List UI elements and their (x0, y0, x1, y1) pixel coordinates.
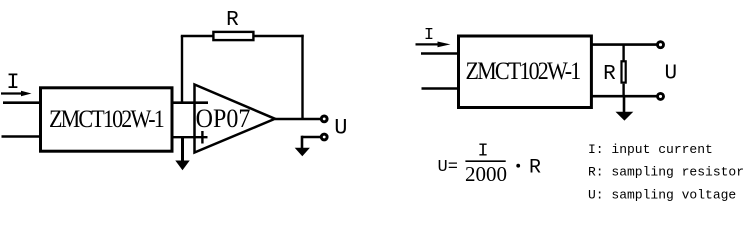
wire output bottom (right circuit) (591, 95, 657, 98)
label ZMCT102W-1 (left box) (49, 106, 164, 134)
wire resistor top leg (622, 45, 624, 61)
svg-text:R: R (529, 157, 541, 180)
wire input top-left (3, 101, 41, 104)
wire ground stub (right circuit) (623, 96, 626, 112)
svg-text:U=: U= (438, 158, 458, 177)
wire op-amp output (275, 118, 320, 121)
svg-text:R: R (603, 63, 616, 86)
feedback wire top right segment (255, 35, 304, 37)
transformer box ZMCT102W-1 (right) (459, 36, 592, 108)
resistor R (feedback) (213, 32, 253, 40)
svg-text:2000: 2000 (465, 162, 507, 186)
feedback wire top left segment (181, 35, 213, 37)
svg-text:U: U (334, 115, 347, 140)
svg-text:OP07: OP07 (196, 105, 251, 133)
feedback wire left vertical (181, 36, 183, 103)
wire input bottom (right circuit) (422, 87, 459, 90)
label ZMCT102W-1 (right box) (466, 58, 581, 86)
svg-text:R: sampling resistor: R: sampling resistor (588, 165, 744, 180)
op-amp U1 triangle OP07 (195, 85, 276, 153)
label OP07 (196, 105, 251, 133)
terminal circle output bottom (left circuit) (321, 134, 327, 140)
ground symbol (right circuit) (616, 112, 634, 121)
terminal circle top (right circuit) (658, 42, 664, 48)
formula fraction bar (465, 160, 505, 162)
current direction arrow (left) (1, 91, 32, 97)
ground symbol (+ input) (175, 161, 189, 171)
svg-text:ZMCT102W-1: ZMCT102W-1 (466, 58, 581, 86)
wire output lower stub horizontal (302, 136, 320, 139)
svg-text:I: I (424, 26, 434, 45)
transformer box ZMCT102W-1 (left) (41, 88, 173, 151)
wire resistor bottom leg (622, 84, 624, 97)
wire box to op-amp non-inverting input (extends inside) (172, 136, 208, 138)
current direction arrow (right) (416, 42, 451, 48)
svg-text:I: input current: I: input current (588, 142, 713, 157)
ground symbol (output) (295, 148, 310, 156)
wire box to op-amp inverting input (extends inside as minus mark) (172, 101, 208, 104)
terminal circle bottom (right circuit) (658, 93, 664, 99)
svg-text:ZMCT102W-1: ZMCT102W-1 (49, 106, 164, 134)
svg-text:U: U (664, 63, 677, 86)
wire ground stub (op-amp + input) (181, 137, 184, 162)
resistor R (sampling, vertical) (622, 61, 626, 82)
wire input bottom-left (2, 135, 41, 138)
formula multiplication dot (516, 164, 520, 168)
wire ground stub vertical (output) (301, 136, 304, 149)
wire output top (right circuit) (591, 43, 657, 46)
svg-text:U: sampling voltage: U: sampling voltage (588, 188, 736, 203)
terminal circle output top (left circuit) (321, 116, 327, 122)
svg-text:I: I (478, 141, 489, 161)
wire input top (right circuit) (421, 52, 459, 55)
feedback wire right vertical (301, 35, 303, 119)
op-amp non-inverting input marker + vertical bar (201, 131, 203, 144)
svg-text:R: R (226, 9, 239, 32)
svg-text:I: I (6, 70, 19, 95)
